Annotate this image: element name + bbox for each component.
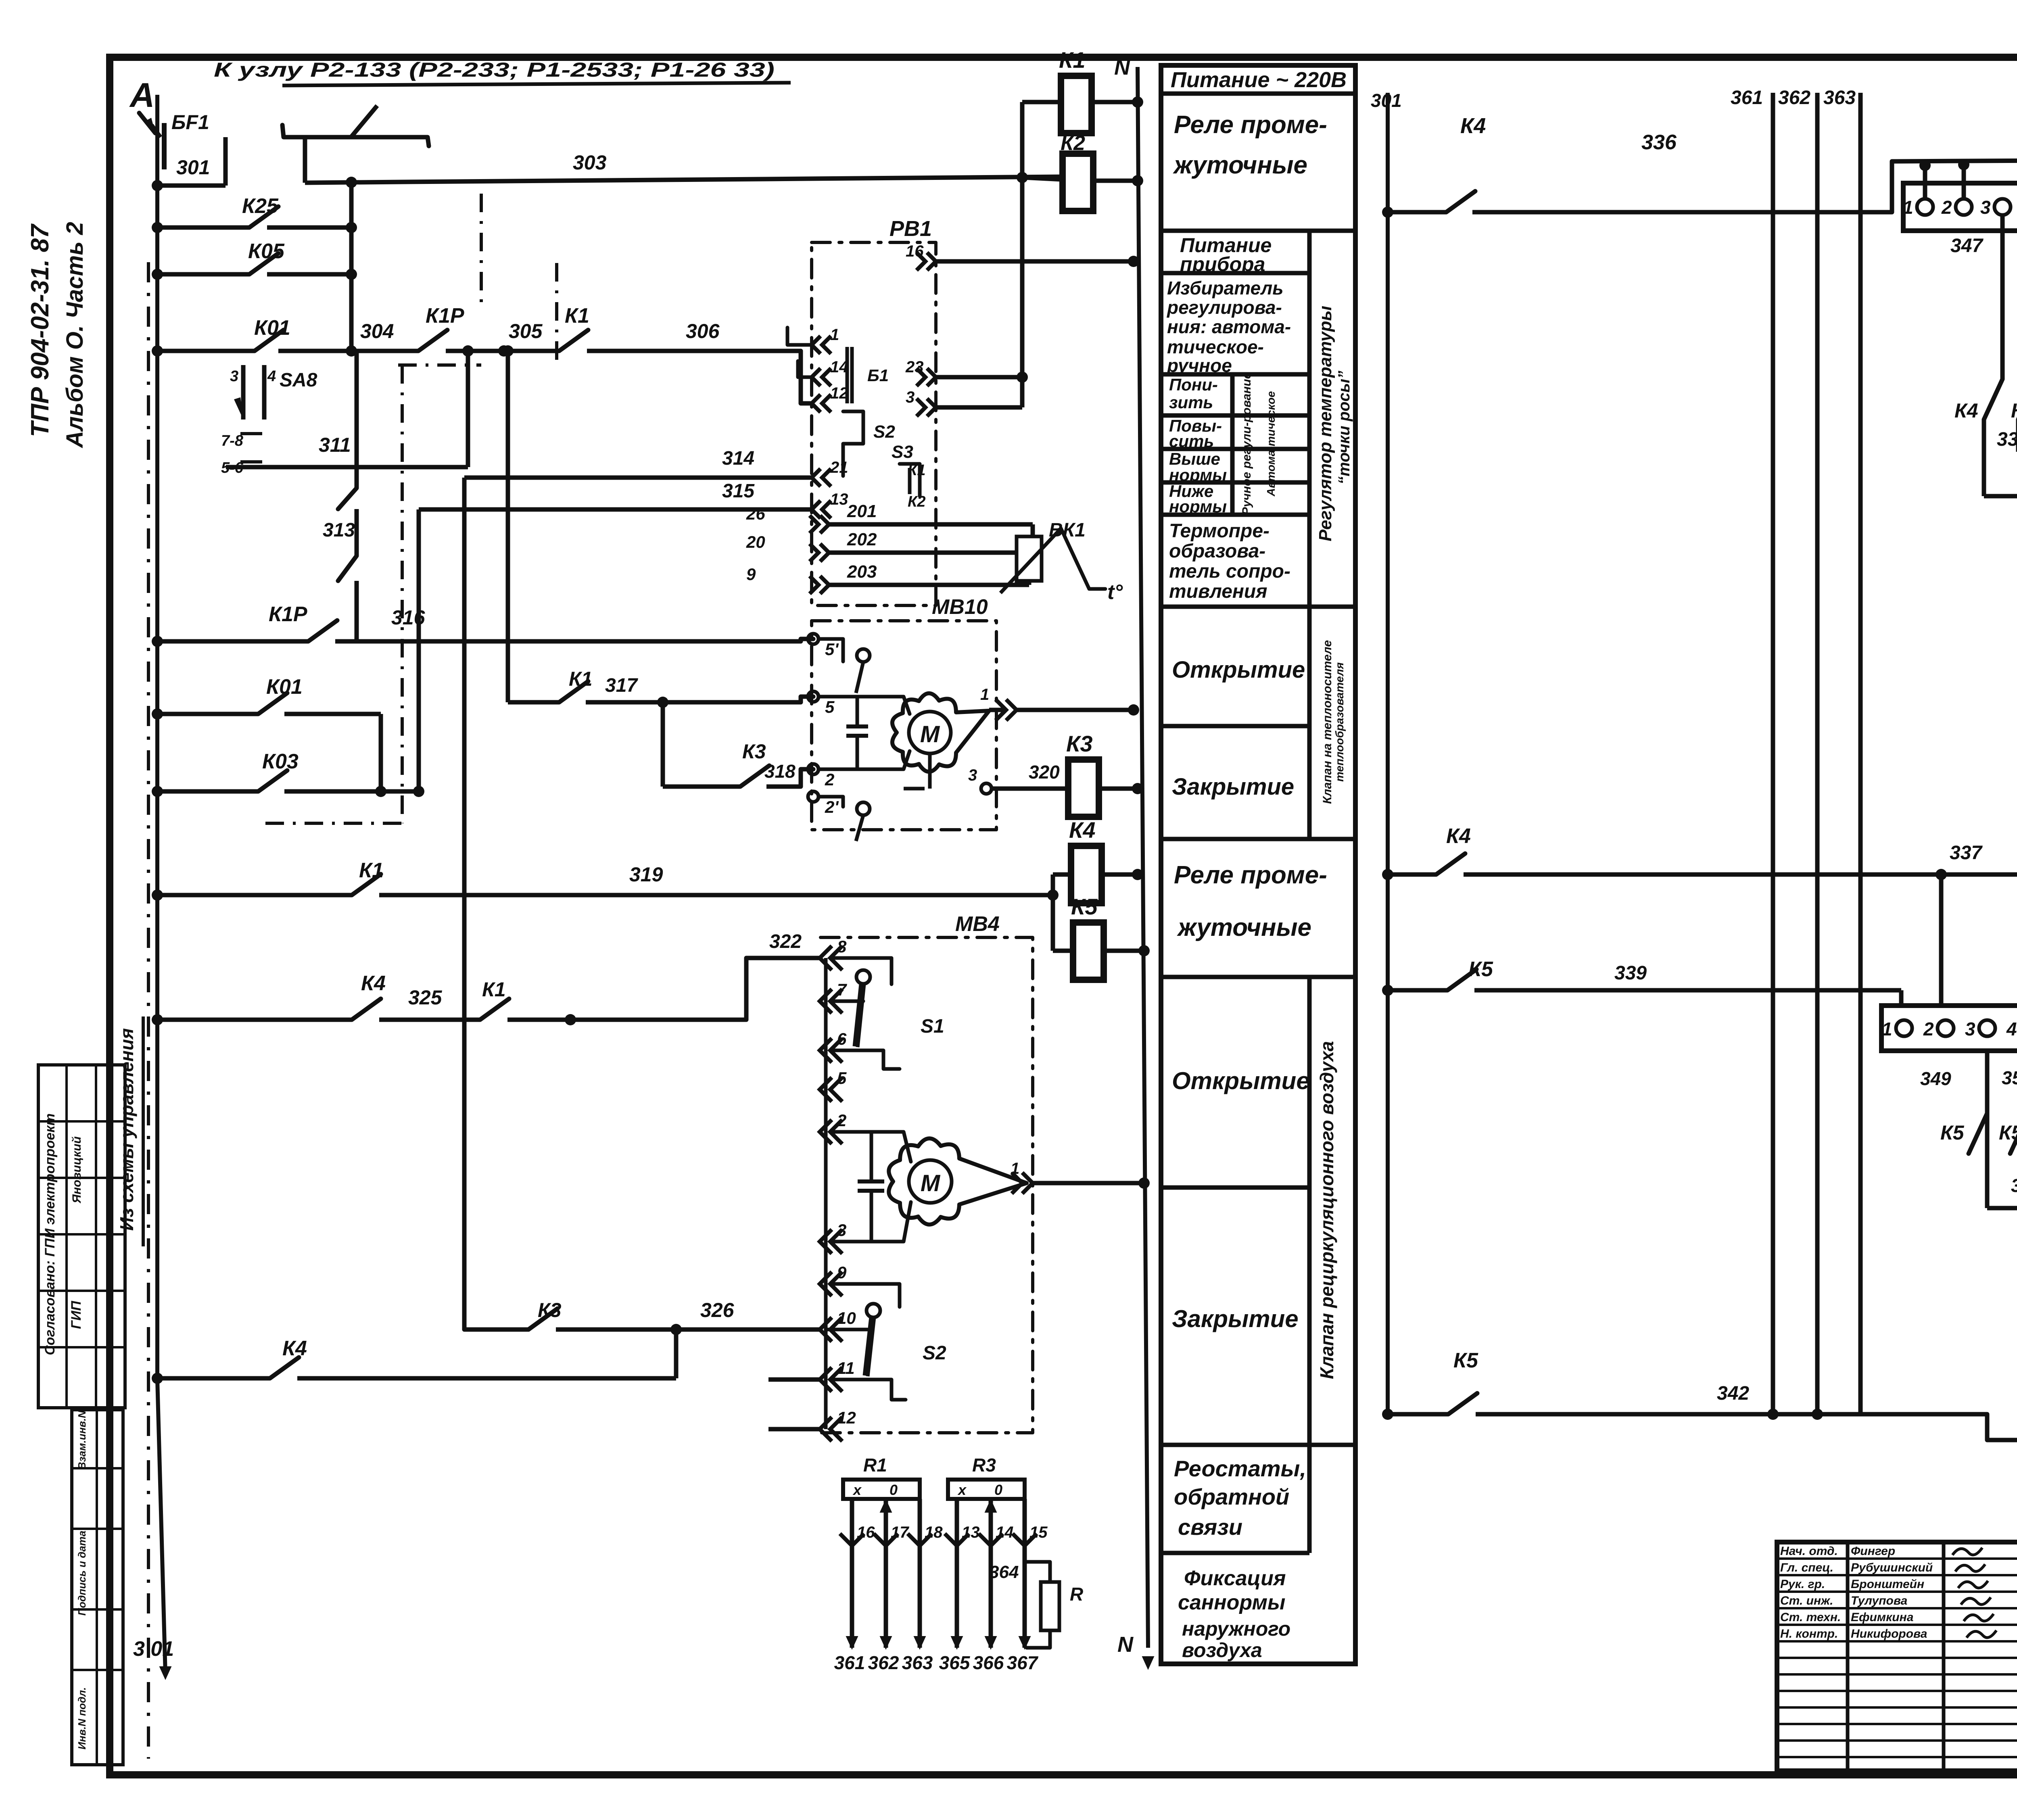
wire 301 continuation arrow [159, 1666, 172, 1680]
wire [1388, 210, 1446, 215]
junction [346, 177, 357, 188]
wire [1022, 177, 1063, 179]
wire [1027, 581, 1031, 585]
junction [1128, 704, 1139, 716]
svg-text:16: 16 [857, 1524, 875, 1541]
svg-text:8: 8 [837, 937, 847, 956]
svg-text:Н. контр.: Н. контр. [1780, 1627, 1838, 1641]
svg-text:4: 4 [267, 368, 276, 385]
junction [657, 697, 668, 708]
svg-text:Закрытие: Закрытие [1172, 1305, 1299, 1332]
svg-text:К4: К4 [1069, 817, 1096, 843]
svg-text:МВ10: МВ10 [932, 595, 988, 619]
МВ4 pin 6 [820, 1038, 832, 1062]
wire [1985, 1051, 1990, 1208]
svg-text:Нач. отд.: Нач. отд. [1780, 1544, 1838, 1558]
wire [262, 365, 267, 420]
arrow 365 [951, 1636, 963, 1650]
wire [936, 375, 1022, 380]
svg-text:23: 23 [905, 358, 924, 376]
wire [417, 509, 421, 791]
junction [1919, 160, 1931, 171]
contact К1 row 317 [559, 681, 588, 702]
wire [1104, 949, 1144, 953]
wire [379, 1018, 480, 1022]
wire [1161, 1443, 1355, 1447]
wire [1388, 1412, 1448, 1417]
svg-text:2: 2 [837, 1111, 846, 1130]
svg-text:S2: S2 [923, 1342, 946, 1364]
svg-text:жуточные: жуточные [1177, 914, 1311, 941]
wire [1161, 724, 1309, 728]
svg-text:А: А [129, 76, 155, 115]
wire [355, 581, 359, 641]
svg-text:336: 336 [1641, 131, 1677, 154]
svg-text:Ручное регули-рование: Ручное регули-рование [1240, 372, 1253, 516]
resistor R [1041, 1582, 1059, 1630]
wire [1307, 1445, 1312, 1553]
svg-text:0: 0 [994, 1482, 1002, 1498]
wire [884, 1499, 888, 1648]
svg-text:ния: автома-: ния: автома- [1167, 316, 1291, 337]
wire [284, 712, 381, 716]
svg-text:Избиратель: Избиратель [1167, 278, 1284, 298]
wire [157, 1018, 352, 1022]
svg-text:1: 1 [1903, 197, 1913, 218]
МВ4 pin 10 [820, 1317, 832, 1342]
wire [829, 583, 1008, 587]
svg-text:366: 366 [973, 1652, 1004, 1673]
svg-text:обратной: обратной [1174, 1484, 1289, 1509]
svg-text:тивления: тивления [1169, 581, 1267, 602]
wire [72, 1528, 123, 1530]
wire [1031, 524, 1035, 536]
cable chevron [820, 576, 829, 594]
МВ4 S2 circle [867, 1304, 880, 1317]
staff table grid [1777, 1542, 2017, 1771]
svg-text:3 01: 3 01 [133, 1637, 174, 1661]
svg-text:образова-: образова- [1169, 541, 1265, 562]
wire [95, 1065, 97, 1408]
junction [346, 345, 357, 357]
svg-text:303: 303 [573, 151, 607, 174]
junction [1138, 1177, 1150, 1189]
wire [1777, 1756, 2017, 1758]
wire [663, 785, 740, 789]
svg-text:К4: К4 [1460, 114, 1486, 138]
contact К4 row 325 [352, 999, 381, 1020]
svg-text:365: 365 [939, 1652, 971, 1673]
wire [157, 639, 308, 644]
wire [1023, 1499, 1027, 1648]
wire [801, 769, 813, 787]
РВ1 pin 16 [927, 253, 936, 270]
wire [1000, 528, 1061, 593]
svg-text:14: 14 [996, 1524, 1014, 1541]
junction [1132, 783, 1143, 794]
wire [466, 351, 470, 467]
chevron pin 17 [874, 1534, 898, 1546]
junction [413, 786, 424, 797]
wire [1093, 179, 1138, 183]
wire [858, 1189, 884, 1193]
svg-text:сить: сить [1169, 432, 1214, 451]
svg-text:К4: К4 [1446, 824, 1471, 848]
svg-text:R3: R3 [972, 1455, 996, 1476]
svg-text:349: 349 [1920, 1068, 1951, 1089]
svg-text:326: 326 [700, 1299, 735, 1321]
svg-text:К01: К01 [254, 316, 290, 340]
junction [1047, 889, 1059, 901]
МВ10 pin 2' [808, 791, 818, 802]
svg-text:350: 350 [2002, 1067, 2017, 1088]
junction [1382, 985, 1393, 996]
РВ1 boundary [812, 242, 936, 605]
contact К03 vertical [338, 556, 357, 581]
svg-text:Регулятор температуры: Регулятор температуры [1315, 306, 1335, 541]
wire [1161, 513, 1309, 517]
svg-text:7: 7 [837, 980, 847, 999]
wire [992, 787, 1065, 791]
svg-text:К5: К5 [1468, 958, 1493, 981]
wire [674, 1330, 679, 1378]
wire [858, 984, 864, 1047]
wire [829, 522, 1008, 527]
МВ4 pin 3 [820, 1229, 832, 1254]
wire [157, 789, 258, 794]
svg-text:К узлу Р2-133 (Р2-233; Р1-2533: К узлу Р2-133 (Р2-233; Р1-2533; Р1-26 33… [214, 58, 775, 81]
wire [587, 349, 801, 353]
svg-text:К1: К1 [908, 462, 926, 479]
svg-text:Из схемы управления: Из схемы управления [116, 1028, 137, 1231]
wire [157, 225, 249, 230]
svg-text:203: 203 [847, 562, 877, 582]
svg-text:N: N [1117, 1632, 1134, 1657]
arrow up [880, 1499, 892, 1513]
КВ1 terminal 2 [1956, 199, 1972, 215]
wire [379, 893, 1053, 897]
resistor R3 bottom [948, 1480, 1025, 1499]
svg-text:316: 316 [391, 606, 426, 629]
wire [1987, 1413, 2017, 1440]
svg-text:К1: К1 [1059, 47, 1086, 73]
wire [1161, 837, 1355, 841]
wire [65, 1065, 68, 1408]
КВ1 terminal 3 [1994, 199, 2011, 215]
svg-text:Пони-: Пони- [1169, 375, 1218, 394]
svg-text:Согласовано: ГПИ электропроект: Согласовано: ГПИ электропроект [42, 1113, 58, 1355]
junction [1936, 869, 1947, 880]
motor М МВ10 [909, 712, 951, 753]
svg-text:воздуха: воздуха [1182, 1639, 1262, 1661]
svg-text:Реостаты,: Реостаты, [1174, 1456, 1306, 1481]
capacitor МВ10 [846, 724, 868, 728]
svg-text:регулирова-: регулирова- [1166, 297, 1282, 318]
wire [157, 893, 352, 897]
junction [152, 269, 163, 280]
wire [147, 262, 150, 1759]
wire [446, 349, 559, 353]
svg-text:ГИП: ГИП [69, 1300, 84, 1329]
svg-text:К05: К05 [248, 240, 285, 263]
junction [152, 889, 163, 901]
wire [1008, 551, 1017, 555]
svg-text:М: М [920, 721, 940, 747]
svg-text:t°: t° [1107, 580, 1123, 604]
wire [832, 1380, 906, 1400]
wire [846, 347, 849, 403]
МВ4 pin 5 [820, 1077, 832, 1102]
МВ4 winding cloud [889, 1138, 1027, 1225]
svg-text:Клапан рециркуляционного возду: Клапан рециркуляционного воздуха [1316, 1041, 1337, 1379]
svg-text:К03: К03 [262, 750, 299, 773]
svg-text:3: 3 [968, 766, 977, 784]
wire [870, 1132, 873, 1181]
junction [152, 222, 163, 233]
wire [1777, 1739, 2017, 1742]
junction [502, 345, 514, 357]
svg-text:20: 20 [746, 532, 765, 551]
wire [1987, 1208, 1988, 1414]
junction [1017, 172, 1028, 183]
junction [346, 222, 357, 233]
dash-dot boundary v2 [480, 194, 483, 307]
wire [1923, 165, 1927, 199]
wire [832, 1202, 911, 1242]
wire [661, 702, 665, 787]
wire [38, 1290, 125, 1292]
svg-text:5: 5 [825, 697, 835, 716]
wire [818, 697, 910, 714]
wire [1092, 100, 1138, 104]
wire [868, 1317, 874, 1376]
junction [1128, 256, 1139, 267]
svg-text:347: 347 [1950, 235, 1984, 257]
wire [856, 815, 863, 841]
svg-text:9: 9 [837, 1263, 847, 1282]
wire [1138, 67, 1148, 1648]
wire [2000, 215, 2005, 379]
dash-dot boundary h1 [398, 363, 481, 367]
svg-text:Реле проме-: Реле проме- [1174, 861, 1327, 889]
wire [1022, 100, 1061, 104]
svg-text:315: 315 [722, 480, 755, 502]
junction [152, 708, 163, 720]
wire [826, 1328, 867, 1332]
svg-text:саннормы: саннормы [1178, 1591, 1285, 1614]
wire 336 upper run [1892, 159, 2017, 212]
wire [801, 697, 813, 702]
svg-text:325: 325 [408, 986, 443, 1009]
junction [1132, 96, 1143, 108]
wire [157, 272, 249, 277]
wire [1815, 109, 1820, 1414]
wire [1846, 1542, 1850, 1771]
svg-text:322: 322 [769, 931, 802, 952]
wire [38, 1177, 125, 1179]
svg-text:4: 4 [2006, 1019, 2017, 1039]
chevron pin 18 [908, 1534, 932, 1546]
junction [152, 180, 163, 191]
contact К05 [249, 253, 278, 274]
svg-text:К1: К1 [482, 978, 506, 1001]
svg-text:х: х [957, 1482, 967, 1498]
svg-text:К5: К5 [1071, 894, 1098, 919]
svg-text:202: 202 [847, 530, 877, 549]
svg-text:3: 3 [837, 1221, 846, 1240]
wire [508, 700, 559, 705]
svg-text:Альбом О. Часть 2: Альбом О. Часть 2 [62, 222, 88, 449]
svg-text:318: 318 [764, 761, 796, 782]
wire [157, 184, 226, 188]
svg-text:К1: К1 [359, 859, 384, 882]
wire [1777, 1607, 2017, 1609]
wire [856, 697, 859, 726]
wire [1065, 787, 1068, 791]
РВ1 pin 3 [927, 399, 936, 416]
wire [1777, 1574, 2017, 1576]
wire [904, 787, 925, 791]
wire [1161, 372, 1309, 377]
svg-text:Клапан на теплоносителе: Клапан на теплоносителе [1321, 640, 1334, 804]
chevron pin 14 [979, 1534, 1003, 1546]
РВ1 pin 12 [812, 394, 821, 412]
svg-text:связи: связи [1178, 1514, 1242, 1540]
wire [1899, 990, 1904, 1006]
МВ10 pin 2 [808, 764, 818, 774]
wire [1033, 1181, 1144, 1186]
wire [1982, 420, 1986, 496]
wire [1161, 271, 1309, 276]
svg-text:К01: К01 [266, 675, 303, 699]
wire [586, 700, 801, 705]
svg-text:301: 301 [176, 156, 210, 179]
svg-text:К4: К4 [1954, 399, 1978, 422]
wire [157, 349, 255, 353]
svg-text:РВ1: РВ1 [889, 217, 932, 241]
wire [1771, 109, 1775, 1414]
wire [349, 182, 354, 351]
wire [1777, 1706, 2017, 1709]
wire [832, 1284, 900, 1307]
wire [507, 1018, 746, 1022]
МВ10 winding cloud [892, 693, 989, 772]
wire [157, 712, 258, 716]
svg-text:Ст. техн.: Ст. техн. [1780, 1611, 1841, 1624]
junction [375, 786, 386, 797]
svg-text:317: 317 [605, 675, 638, 696]
svg-text:ТПР 904-02-31. 87: ТПР 904-02-31. 87 [26, 223, 54, 437]
approval stamp table [38, 1065, 125, 1408]
svg-text:К5: К5 [1999, 1121, 2017, 1144]
junction [462, 345, 474, 357]
wire [832, 1050, 900, 1069]
svg-text:Бронштейн: Бронштейн [1851, 1578, 1924, 1591]
wire [240, 460, 262, 463]
wire [2016, 420, 2017, 447]
wire [1161, 1551, 1309, 1555]
wire [1777, 1723, 2017, 1725]
terminal strip КВ2 [1881, 1006, 2017, 1051]
wire [766, 785, 801, 789]
svg-text:361: 361 [834, 1652, 865, 1673]
svg-text:2': 2' [825, 797, 839, 816]
svg-text:К3: К3 [538, 1299, 562, 1321]
wire [223, 137, 228, 186]
wire [1307, 231, 1312, 607]
wire [157, 1380, 165, 1674]
wire [850, 1499, 854, 1648]
svg-text:Автома-тическое: Автома-тическое [1265, 391, 1277, 497]
wire [798, 361, 812, 377]
svg-text:S2: S2 [873, 422, 895, 442]
wire [1020, 102, 1025, 407]
wire [1777, 1557, 2017, 1560]
wire [824, 958, 828, 1429]
wire [303, 137, 307, 183]
МВ10 pin 3 [981, 783, 992, 794]
junction [152, 1373, 163, 1384]
wire [1161, 92, 1355, 96]
contact К1 row 325 [480, 999, 509, 1020]
relay coil К2 [1061, 131, 1093, 211]
svg-text:7-8: 7-8 [221, 432, 244, 449]
wire [284, 789, 419, 794]
wire [829, 551, 1008, 555]
wire [854, 984, 861, 1046]
cable chevron [1006, 699, 1017, 720]
wire [1161, 229, 1355, 233]
contact К5 vert 1 [1969, 1113, 1987, 1154]
wire [801, 639, 813, 641]
wire [1008, 522, 1033, 527]
wire [856, 736, 859, 769]
wire [1161, 480, 1309, 485]
wire [746, 958, 820, 1020]
РВ1 pin 14 [812, 368, 821, 386]
wire [1474, 988, 1901, 993]
svg-text:313: 313 [323, 520, 355, 541]
junction [152, 345, 163, 357]
wire [1939, 875, 1944, 1006]
svg-text:13: 13 [962, 1524, 980, 1541]
svg-text:1: 1 [830, 326, 839, 344]
svg-text:Яновицкий: Яновицкий [70, 1136, 84, 1204]
svg-text:Ефимкина: Ефимкина [1851, 1611, 1913, 1624]
contact К03 row6 [258, 770, 287, 791]
wire [1307, 607, 1312, 839]
svg-text:26: 26 [746, 504, 765, 523]
wire [1099, 787, 1138, 791]
wire [1858, 93, 1863, 109]
wire [801, 351, 812, 403]
cable chevron [1022, 1173, 1033, 1194]
wire [1161, 447, 1309, 451]
junction [152, 636, 163, 647]
wire [241, 365, 246, 420]
КВ2 terminal 1 [1896, 1020, 1912, 1036]
wire [1017, 708, 1134, 712]
РВ1 S2 switch [843, 411, 863, 476]
wire [818, 639, 843, 662]
chevron pin 16 [840, 1534, 864, 1546]
svg-text:К1Р: К1Р [426, 304, 464, 328]
wire [818, 695, 843, 699]
contact К5 vert 2 [2010, 1113, 2017, 1154]
svg-text:К4: К4 [282, 1337, 307, 1360]
cable chevron [820, 516, 829, 533]
wire [1388, 872, 1436, 877]
